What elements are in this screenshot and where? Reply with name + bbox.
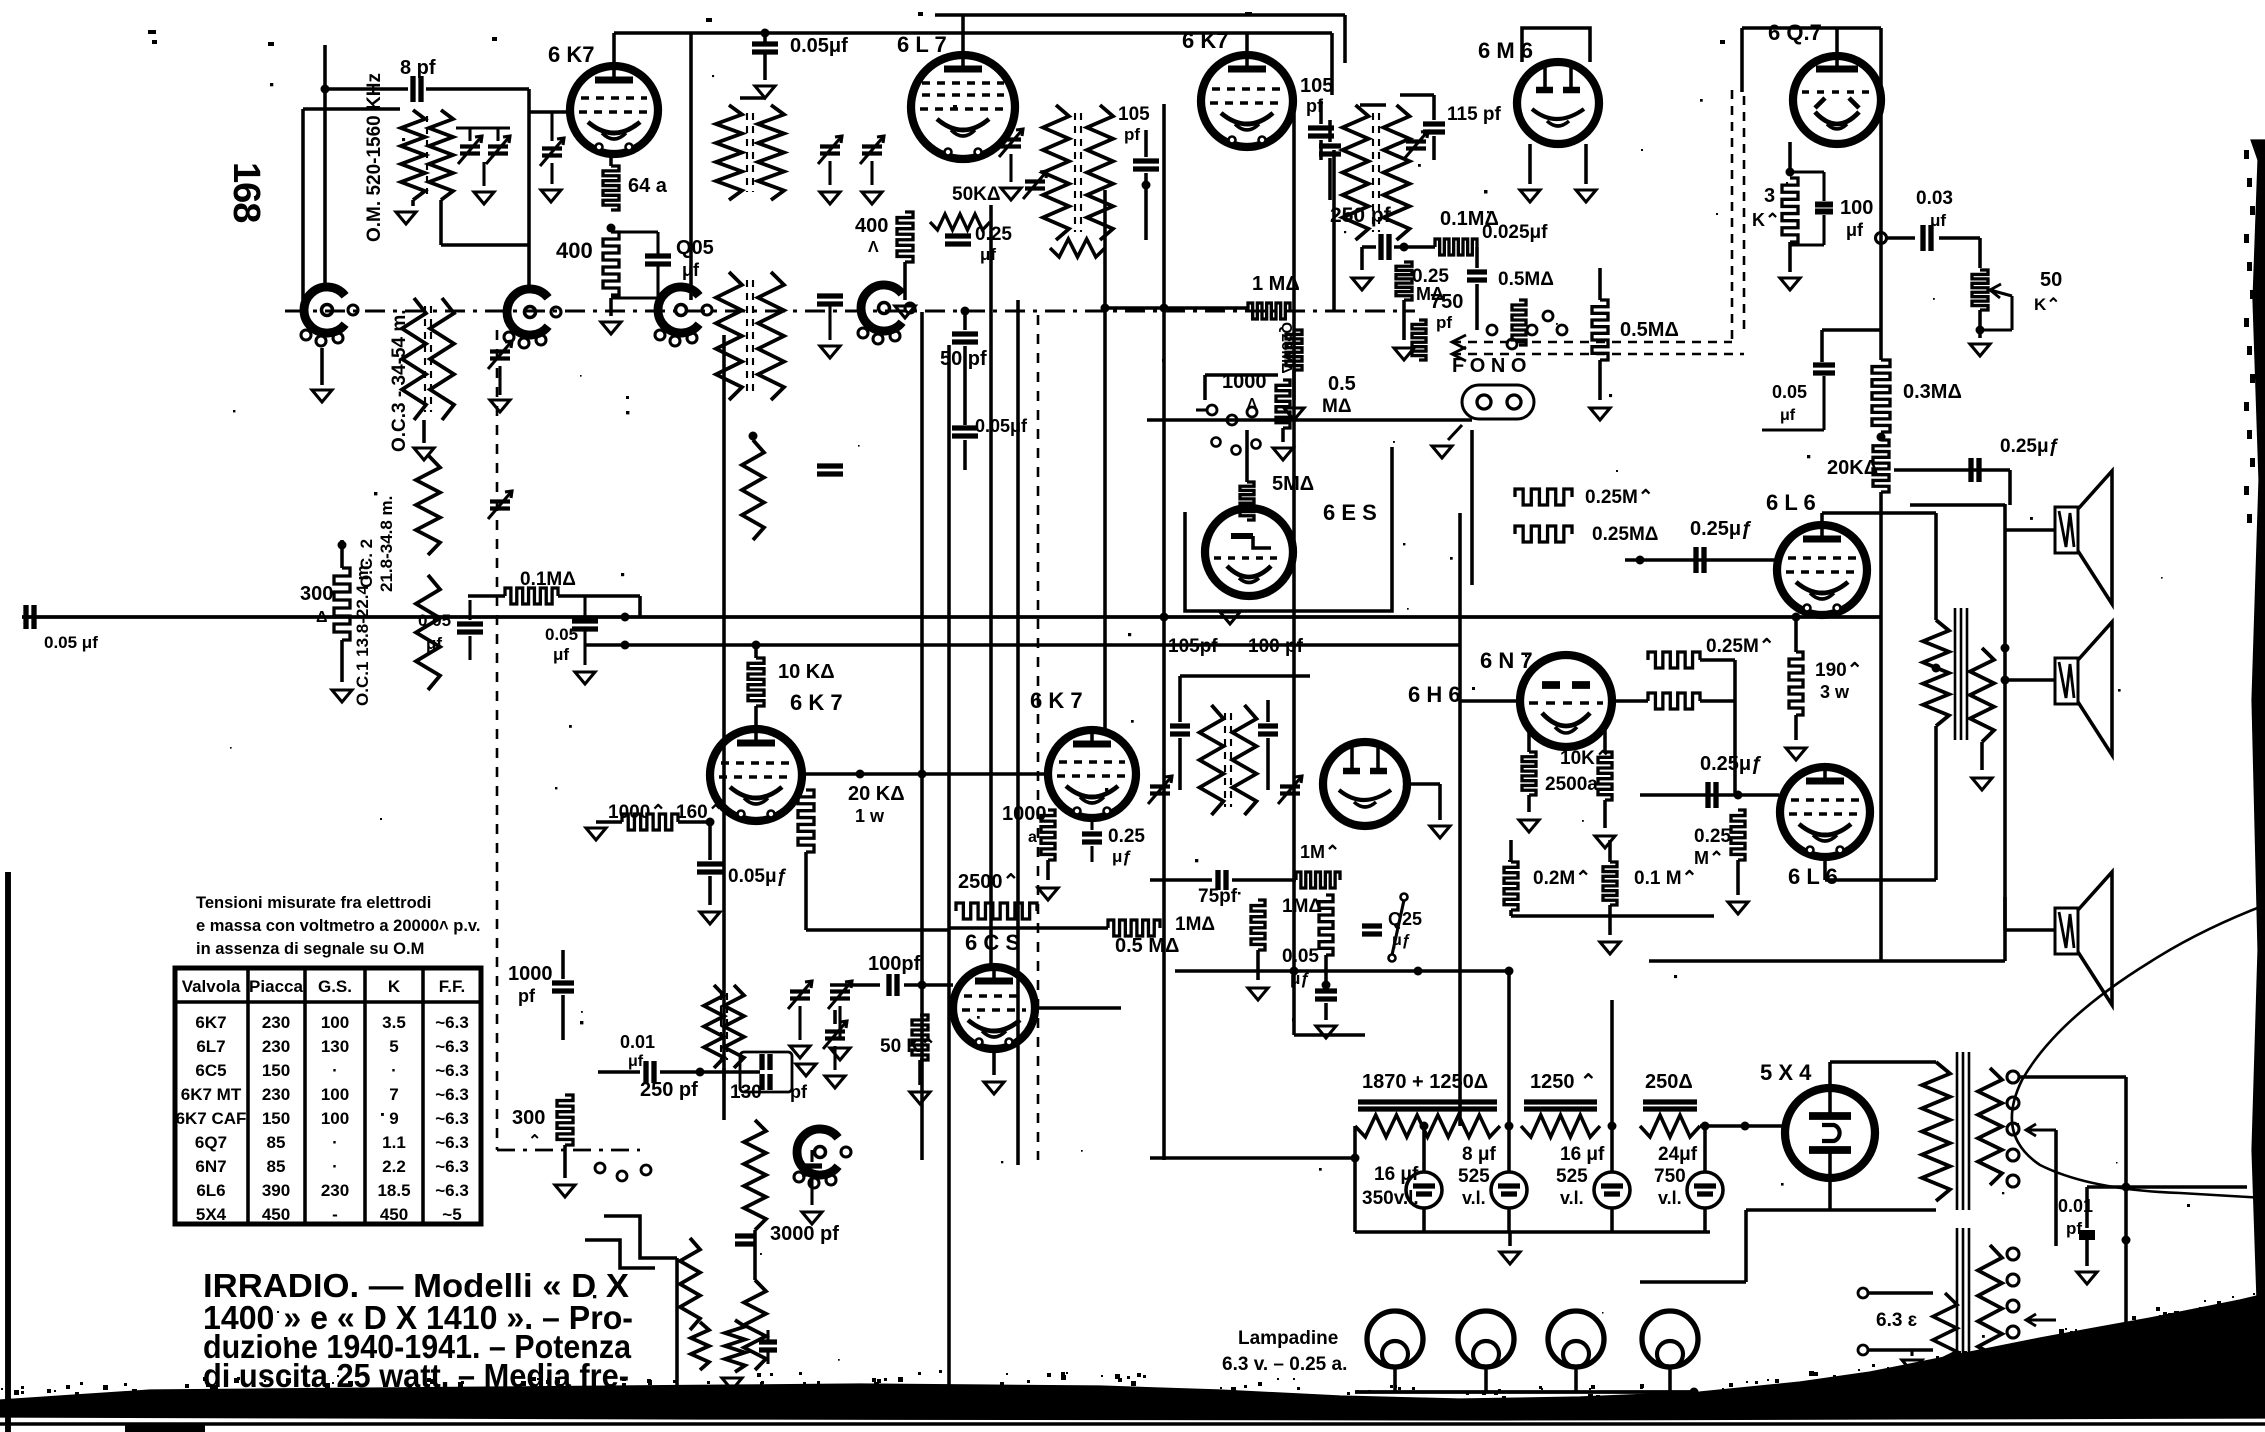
svg-text:O.M. 520-1560 KHz: O.M. 520-1560 KHz [364, 73, 385, 242]
svg-text:10 KΔ: 10 KΔ [778, 661, 835, 683]
svg-text:5MΔ: 5MΔ [1272, 473, 1314, 495]
svg-text:Q25MΔ: Q25MΔ [1278, 322, 1295, 374]
svg-text:6L7: 6L7 [196, 1037, 225, 1056]
svg-text:8 μf: 8 μf [1462, 1144, 1496, 1165]
svg-text:6 L 7: 6 L 7 [897, 32, 947, 57]
svg-text:Λ: Λ [868, 239, 879, 256]
svg-text:1MΔ: 1MΔ [1175, 914, 1215, 935]
svg-text:6 L 6: 6 L 6 [1766, 490, 1816, 515]
svg-text:6K7 MT: 6K7 MT [181, 1085, 242, 1104]
svg-text:Tensioni misurate fra elett: Tensioni misurate fra elettrodi [196, 894, 431, 912]
svg-text:0.1MΔ: 0.1MΔ [520, 569, 576, 590]
svg-text:750: 750 [1654, 1166, 1686, 1187]
svg-text:μf: μf [980, 245, 996, 264]
svg-text:105pf: 105pf [1168, 636, 1218, 657]
svg-text:·: · [391, 1061, 397, 1080]
svg-text:3000 pf: 3000 pf [770, 1223, 839, 1245]
svg-text:160⌃: 160⌃ [676, 802, 724, 823]
svg-text:Q05: Q05 [676, 237, 714, 259]
svg-text:400: 400 [855, 215, 888, 237]
svg-text:64 a: 64 a [628, 175, 668, 197]
svg-text:μf: μf [1930, 211, 1946, 230]
svg-text:24μf: 24μf [1658, 1144, 1698, 1165]
svg-text:6K7: 6K7 [195, 1013, 226, 1032]
svg-text:6N7: 6N7 [195, 1157, 226, 1176]
svg-text:~6.3: ~6.3 [435, 1109, 469, 1128]
svg-text:2500a: 2500a [1545, 774, 1598, 795]
svg-text:μf: μf [1780, 407, 1796, 424]
svg-text:pf: pf [790, 1082, 808, 1102]
svg-text:230: 230 [262, 1085, 290, 1104]
svg-text:9: 9 [389, 1109, 398, 1128]
svg-text:250 pf: 250 pf [640, 1079, 698, 1101]
svg-text:1870 + 1250Δ: 1870 + 1250Δ [1362, 1071, 1488, 1093]
svg-text:115 pf: 115 pf [1447, 104, 1502, 125]
svg-text:130: 130 [321, 1037, 349, 1056]
svg-text:230: 230 [262, 1037, 290, 1056]
svg-text:230: 230 [262, 1013, 290, 1032]
svg-text:6L6: 6L6 [196, 1181, 225, 1200]
svg-text:525: 525 [1458, 1166, 1490, 1187]
svg-text:μf: μf [682, 260, 700, 280]
svg-text:390: 390 [262, 1181, 290, 1200]
svg-text:6 M 6: 6 M 6 [1478, 38, 1533, 63]
svg-text:Lampadine: Lampadine [1238, 1328, 1338, 1349]
svg-text:50KΔ: 50KΔ [952, 184, 1001, 205]
svg-text:2500⌃: 2500⌃ [958, 871, 1019, 893]
svg-text:0.5: 0.5 [1328, 373, 1356, 395]
svg-text:16 μf: 16 μf [1560, 1144, 1605, 1165]
svg-text:0.3MΔ: 0.3MΔ [1903, 381, 1962, 403]
svg-text:μf: μf [1846, 220, 1864, 240]
svg-text:400: 400 [556, 238, 593, 263]
svg-text:0.25: 0.25 [1108, 826, 1145, 847]
svg-text:130: 130 [730, 1082, 762, 1103]
svg-text:~5: ~5 [442, 1205, 461, 1224]
svg-text:750: 750 [1430, 291, 1463, 313]
svg-text:190⌃: 190⌃ [1815, 660, 1863, 681]
svg-text:100: 100 [321, 1109, 349, 1128]
svg-text:0.5 MΔ: 0.5 MΔ [1115, 935, 1179, 957]
svg-text:1000: 1000 [508, 963, 553, 985]
svg-text:6 L 6: 6 L 6 [1788, 864, 1838, 889]
svg-text:di uscita 25 watt. – Media f: di uscita 25 watt. – Media fre- [203, 1357, 629, 1394]
svg-text:M⌃: M⌃ [1694, 848, 1724, 868]
svg-text:6Q7: 6Q7 [195, 1133, 227, 1152]
svg-text:18.5: 18.5 [377, 1181, 410, 1200]
svg-text:G.S.: G.S. [318, 977, 352, 996]
svg-text:6K7 CAF: 6K7 CAF [176, 1109, 247, 1128]
svg-text:1MΔ: 1MΔ [1282, 896, 1322, 917]
svg-text:pf: pf [1436, 313, 1452, 332]
svg-text:0.25: 0.25 [975, 224, 1012, 245]
svg-text:20 KΔ: 20 KΔ [848, 783, 905, 805]
svg-text:0.05μf: 0.05μf [975, 416, 1028, 436]
svg-text:50: 50 [2040, 269, 2062, 291]
svg-text:-: - [332, 1205, 338, 1224]
svg-text:0.25: 0.25 [1694, 826, 1731, 847]
svg-text:7: 7 [389, 1085, 398, 1104]
svg-text:8 pf: 8 pf [400, 57, 436, 79]
svg-text:5X4: 5X4 [196, 1205, 227, 1224]
svg-text:350v.l.: 350v.l. [1362, 1188, 1419, 1209]
svg-text:0.5MΔ: 0.5MΔ [1498, 269, 1554, 290]
svg-text:·: · [332, 1061, 338, 1080]
svg-text:6.3 a.: 6.3 a. [1898, 1384, 1943, 1404]
svg-text:0.5MΔ: 0.5MΔ [1620, 319, 1679, 341]
svg-text:Piacca: Piacca [249, 977, 303, 996]
svg-text:μƒ: μƒ [1112, 847, 1132, 866]
svg-text:100: 100 [321, 1085, 349, 1104]
svg-text:~6.3: ~6.3 [435, 1133, 469, 1152]
svg-text:μf: μf [553, 645, 569, 664]
svg-text:~6.3: ~6.3 [435, 1157, 469, 1176]
svg-text:v.l.: v.l. [1658, 1188, 1682, 1208]
svg-text:1000: 1000 [1002, 803, 1047, 825]
svg-text:0.25M⌃: 0.25M⌃ [1585, 487, 1654, 508]
svg-text:16 μf: 16 μf [1374, 1164, 1419, 1185]
svg-text:100: 100 [1840, 197, 1873, 219]
svg-text:μf: μf [426, 634, 442, 653]
svg-text:75pf: 75pf [1198, 886, 1238, 907]
svg-text:0.05: 0.05 [1282, 946, 1319, 967]
svg-text:MΔ: MΔ [1322, 396, 1351, 417]
svg-text:·: · [332, 1157, 338, 1176]
svg-text:21.8-34.8 m.: 21.8-34.8 m. [377, 496, 396, 592]
svg-text:0.05: 0.05 [1772, 382, 1807, 402]
svg-text:~6.3: ~6.3 [435, 1181, 469, 1200]
svg-text:0.05: 0.05 [418, 611, 451, 630]
svg-text:0.03: 0.03 [1916, 188, 1953, 209]
svg-text:0.05 μf: 0.05 μf [44, 633, 98, 652]
svg-text:0.2M⌃: 0.2M⌃ [1533, 868, 1591, 889]
svg-text:0.05μf: 0.05μf [790, 35, 848, 57]
svg-text:~6.3: ~6.3 [435, 1013, 469, 1032]
svg-text:6 K 7: 6 K 7 [790, 690, 843, 715]
svg-text:1M⌃: 1M⌃ [1300, 842, 1340, 862]
svg-text:6 Q.7: 6 Q.7 [1768, 20, 1822, 45]
svg-text:6 E S: 6 E S [1323, 500, 1377, 525]
svg-text:e massa con voltmetro a 20: e massa con voltmetro a 20000˄ p.v. [196, 917, 480, 935]
svg-text:~6.3: ~6.3 [435, 1037, 469, 1056]
svg-text:450: 450 [380, 1205, 408, 1224]
svg-text:0.1 M⌃: 0.1 M⌃ [1634, 868, 1697, 889]
svg-text:1 MΔ: 1 MΔ [1252, 273, 1300, 295]
svg-text:·: · [332, 1133, 338, 1152]
svg-text:50 pf: 50 pf [940, 348, 987, 370]
svg-text:20KΔ: 20KΔ [1827, 457, 1878, 479]
svg-text:5: 5 [389, 1037, 398, 1056]
svg-text:3.5: 3.5 [382, 1013, 406, 1032]
svg-text:230: 230 [321, 1181, 349, 1200]
svg-text:F.F.: F.F. [439, 977, 465, 996]
svg-text:pf: pf [518, 986, 536, 1006]
svg-text:525: 525 [1556, 1166, 1588, 1187]
svg-text:300: 300 [512, 1107, 545, 1129]
svg-text:5 X 4: 5 X 4 [1760, 1060, 1812, 1085]
svg-text:6 N 7: 6 N 7 [1480, 648, 1533, 673]
svg-text:450: 450 [262, 1205, 290, 1224]
svg-text:150: 150 [262, 1061, 290, 1080]
svg-text:in assenza di segnale su: in assenza di segnale su O.M [196, 940, 424, 958]
svg-text:2.2: 2.2 [382, 1157, 406, 1176]
svg-text:v.l.: v.l. [1560, 1188, 1584, 1208]
svg-text:105: 105 [1300, 75, 1333, 97]
svg-text:6.3 v. – 0.25 a.: 6.3 v. – 0.25 a. [1222, 1354, 1347, 1375]
svg-text:v.l.: v.l. [1462, 1188, 1486, 1208]
svg-text:0.01: 0.01 [620, 1032, 655, 1052]
svg-text:150: 150 [262, 1109, 290, 1128]
svg-text:0.05: 0.05 [545, 625, 578, 644]
svg-text:0.25μƒ: 0.25μƒ [2000, 436, 2059, 457]
svg-text:105: 105 [1118, 104, 1150, 125]
svg-text:0.05μƒ: 0.05μƒ [728, 866, 787, 887]
svg-text:250 pf: 250 pf [1330, 204, 1392, 227]
svg-text:85: 85 [267, 1133, 286, 1152]
svg-text:1 w: 1 w [855, 806, 885, 826]
svg-text:1250 ⌃: 1250 ⌃ [1530, 1071, 1597, 1093]
svg-text:K: K [388, 977, 401, 996]
svg-text:0.25M⌃: 0.25M⌃ [1706, 636, 1775, 657]
svg-text:pf: pf [1124, 125, 1140, 144]
svg-text:168: 168 [225, 162, 267, 222]
svg-text:1000⌃: 1000⌃ [608, 802, 666, 823]
svg-text:0.25MΔ: 0.25MΔ [1592, 524, 1658, 545]
svg-text:K⌃: K⌃ [2034, 295, 2061, 314]
svg-text:0.25μƒ: 0.25μƒ [1690, 518, 1752, 540]
svg-text:100: 100 [321, 1013, 349, 1032]
svg-text:0.25μƒ: 0.25μƒ [1700, 753, 1762, 775]
svg-text:0.025μf: 0.025μf [1482, 222, 1548, 243]
svg-text:K⌃: K⌃ [1752, 210, 1780, 230]
svg-text:3: 3 [1764, 185, 1775, 207]
svg-text:μf: μf [628, 1053, 644, 1070]
svg-text:250Δ: 250Δ [1645, 1071, 1693, 1093]
svg-text:100 pf: 100 pf [1248, 636, 1304, 657]
svg-text:6 K7: 6 K7 [548, 42, 594, 67]
svg-text:10K⌃: 10K⌃ [1560, 748, 1611, 769]
svg-text:50 K⌃: 50 K⌃ [880, 1036, 936, 1057]
svg-text:a: a [1028, 829, 1037, 846]
svg-text:~6.3: ~6.3 [435, 1085, 469, 1104]
svg-text:6C5: 6C5 [195, 1061, 226, 1080]
svg-text:6.3 ɛ: 6.3 ɛ [1876, 1310, 1917, 1331]
svg-text:85: 85 [267, 1157, 286, 1176]
svg-text:⌃: ⌃ [528, 1133, 541, 1150]
svg-text:1.1: 1.1 [382, 1133, 406, 1152]
svg-text:~6.3: ~6.3 [435, 1061, 469, 1080]
svg-text:6 H 6: 6 H 6 [1408, 682, 1461, 707]
svg-text:Valvola: Valvola [182, 977, 241, 996]
svg-text:100pf: 100pf [868, 953, 921, 975]
svg-text:300: 300 [300, 583, 333, 605]
svg-text:3 w: 3 w [1820, 682, 1850, 702]
svg-text:Q25: Q25 [1388, 909, 1422, 929]
svg-text:O.C.1 13.8-22.4 m.: O.C.1 13.8-22.4 m. [353, 560, 372, 706]
